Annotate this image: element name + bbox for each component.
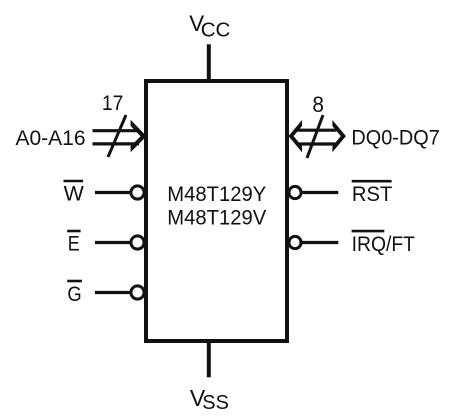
wire VSS lead: [207, 341, 211, 377]
svg-text:DQ0-DQ7: DQ0-DQ7: [351, 126, 439, 150]
data bus left arrowhead: [289, 120, 303, 152]
wire RST pin: [302, 191, 338, 194]
chip body U1 M48T129: [146, 81, 287, 341]
address bus slash: [108, 115, 126, 157]
node W label (active low): [64, 181, 85, 206]
svg-text:W: W: [64, 182, 85, 206]
wire address bus top line: [93, 129, 140, 132]
svg-text:G: G: [67, 282, 81, 306]
wire address bus bottom line: [93, 142, 140, 145]
wire E pin: [95, 241, 131, 244]
node RST label (active low): [352, 181, 393, 206]
data bus right arrowhead: [332, 120, 346, 152]
power VCC label: [189, 11, 230, 42]
node IRQ/FT label (IRQ active low): [352, 231, 415, 256]
svg-text:CC: CC: [201, 19, 231, 42]
wire VCC lead: [207, 44, 211, 81]
inversion bubble G: [131, 286, 144, 299]
address bus arrowhead: [131, 120, 147, 152]
inversion bubble E: [131, 236, 144, 249]
svg-text:SS: SS: [202, 391, 229, 414]
wire data bus bottom line: [298, 142, 337, 145]
inversion bubble IRQ: [289, 236, 301, 248]
wire data bus top line: [298, 129, 337, 132]
wire IRQ pin: [302, 241, 338, 244]
node E label (active low): [67, 231, 80, 256]
svg-text:8: 8: [312, 92, 324, 117]
power VSS label: [190, 385, 229, 414]
svg-text:M48T129V: M48T129V: [167, 206, 267, 230]
node G label (active low): [67, 281, 82, 306]
data bus slash: [307, 115, 323, 158]
inversion bubble W: [131, 186, 144, 199]
svg-text:A0-A16: A0-A16: [16, 126, 86, 150]
svg-text:M48T129Y: M48T129Y: [167, 182, 266, 206]
inversion bubble RST: [289, 186, 301, 198]
wire G pin: [95, 291, 131, 294]
svg-text:E: E: [68, 232, 80, 256]
svg-text:RST: RST: [352, 182, 392, 206]
svg-text:IRQ/FT: IRQ/FT: [352, 232, 415, 256]
wire W pin: [95, 191, 131, 194]
svg-text:17: 17: [102, 92, 123, 115]
